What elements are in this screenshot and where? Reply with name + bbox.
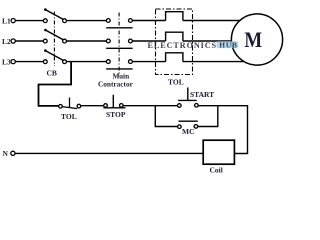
node L3 xyxy=(2,57,15,66)
node L1 xyxy=(2,16,15,25)
wire MC to junction xyxy=(198,106,218,127)
wire contactor to TOL phase 2 xyxy=(132,40,165,42)
svg-text:MC: MC xyxy=(182,127,195,136)
contactor mechanical link xyxy=(118,13,120,77)
wire TOL to motor phase 2 xyxy=(183,40,232,42)
overload contact TOL (NC) xyxy=(59,98,81,109)
TOL heater element phase 3 xyxy=(166,53,183,62)
label Main Contractor xyxy=(98,72,134,89)
wire STOP to START xyxy=(123,105,177,107)
wire TOL to motor phase 3 xyxy=(183,61,244,63)
wire CB to contactor pole 3 xyxy=(66,61,106,63)
auxiliary contact MC (NO) xyxy=(178,121,198,128)
contactor main contact pole 1 xyxy=(106,19,132,28)
coil MC xyxy=(203,140,234,164)
wire CB to contactor pole 2 xyxy=(66,40,106,42)
wire L3 to CB xyxy=(15,61,43,63)
node N xyxy=(3,149,15,158)
watermark xyxy=(148,41,239,51)
svg-text:ELECTRONICS: ELECTRONICS xyxy=(148,41,218,50)
wire contactor to TOL phase 3 xyxy=(132,61,165,63)
CB mechanical link xyxy=(53,12,55,67)
wire TOL contact to STOP xyxy=(81,105,104,107)
TOL heater element phase 1 xyxy=(166,12,183,21)
wire branch down to MC xyxy=(155,106,177,127)
svg-text:STOP: STOP xyxy=(106,110,126,119)
svg-text:TOL: TOL xyxy=(168,78,184,87)
svg-text:Contractor: Contractor xyxy=(98,79,134,88)
svg-text:N: N xyxy=(3,149,9,158)
node L2 xyxy=(2,37,15,46)
wire control feed from L3 xyxy=(39,62,72,106)
svg-text:CB: CB xyxy=(47,69,57,78)
svg-text:Coil: Coil xyxy=(210,165,223,174)
contactor main contact pole 3 xyxy=(106,60,132,69)
circuit breaker CB pole 1 xyxy=(43,8,66,22)
wire L1 to CB xyxy=(15,20,43,22)
pushbutton STOP (NC) xyxy=(103,95,125,108)
wire contactor to TOL phase 1 xyxy=(132,20,165,22)
wire N to coil xyxy=(15,152,203,154)
svg-text:L3: L3 xyxy=(2,57,11,66)
svg-text:HUB: HUB xyxy=(219,41,237,50)
wire CB to contactor pole 1 xyxy=(66,20,106,22)
wire TOL to motor phase 1 xyxy=(183,20,241,22)
svg-text:M: M xyxy=(244,27,262,52)
contactor main contact pole 2 xyxy=(106,39,132,48)
circuit breaker CB pole 2 xyxy=(43,29,66,43)
wire L2 to CB xyxy=(15,40,43,42)
svg-text:L1: L1 xyxy=(2,16,11,25)
svg-text:L2: L2 xyxy=(2,37,11,46)
TOL heater element phase 2 xyxy=(166,32,183,41)
pushbutton START (NO) xyxy=(178,88,199,108)
svg-text:TOL: TOL xyxy=(61,112,77,121)
circuit breaker CB pole 3 xyxy=(43,49,66,63)
wire START to coil xyxy=(198,106,247,154)
TOL enclosure xyxy=(156,9,193,75)
svg-text:START: START xyxy=(190,90,214,99)
motor M1 xyxy=(231,14,282,65)
